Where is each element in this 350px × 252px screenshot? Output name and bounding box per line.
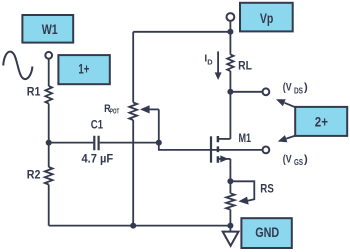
- wire terminal to R1: [48, 59, 50, 86]
- MOSFET M1 channel segments: [217, 136, 220, 163]
- RS wiper junction dot: [227, 178, 233, 184]
- svg-text:): ): [304, 153, 308, 165]
- VGS terminal circle: [263, 147, 270, 154]
- MOSFET M1 gate bar: [210, 136, 212, 162]
- RS wiper wire: [230, 181, 254, 201]
- sine wave symbol: [3, 52, 32, 79]
- W1 signal source box: [22, 15, 73, 43]
- M1 drain wire: [219, 138, 231, 140]
- svg-text:4.7 µF: 4.7 µF: [82, 152, 114, 166]
- potentiometer RPOT: [129, 103, 137, 121]
- RPOT wiper arrow: [149, 108, 159, 110]
- bottom ground rail wire: [49, 225, 231, 227]
- capacitor C1: [94, 136, 98, 151]
- ID current arrow: [217, 51, 219, 73]
- svg-text:POT: POT: [110, 106, 120, 115]
- svg-text:R2: R2: [27, 168, 41, 182]
- ground symbol: [223, 232, 239, 246]
- 2+ scope channel box: [295, 107, 347, 136]
- svg-text:): ): [304, 82, 308, 94]
- svg-text:(V: (V: [283, 153, 292, 165]
- resistor RL: [227, 55, 233, 72]
- svg-text:D: D: [207, 57, 213, 66]
- wire RS to ground: [229, 210, 231, 232]
- arrow 2+ to VDS: [285, 103, 296, 108]
- VDS terminal circle: [263, 88, 270, 95]
- wiper wire down to node B: [158, 109, 160, 142]
- node A junction dot: [46, 140, 52, 146]
- svg-text:1+: 1+: [78, 62, 89, 77]
- svg-text:RL: RL: [238, 59, 252, 73]
- VDS tap wire: [230, 91, 262, 93]
- wire C1 to node B: [100, 142, 159, 144]
- svg-text:C1: C1: [91, 117, 103, 131]
- top supply rail wire: [133, 31, 230, 33]
- svg-text:Vp: Vp: [260, 11, 274, 26]
- middle rail wire (Vp to RPOT): [132, 32, 134, 103]
- resistor RS: [226, 193, 234, 209]
- svg-text:R1: R1: [27, 85, 41, 99]
- svg-text:W1: W1: [42, 22, 58, 37]
- M1 source arrow: [220, 155, 228, 162]
- right rail wire Vp to drain: [229, 21, 231, 55]
- resistor R2: [45, 167, 53, 185]
- top rail junction dot: [227, 29, 233, 35]
- node B junction dot (wiper to gate): [156, 140, 162, 146]
- svg-text:GS: GS: [294, 158, 303, 167]
- terminal node W1/1+ (open circle): [45, 52, 52, 59]
- svg-text:M1: M1: [239, 131, 252, 145]
- wire source to RS: [229, 159, 231, 193]
- wire node A to C1: [49, 142, 94, 144]
- resistor R1: [45, 86, 52, 104]
- VDS branch junction dot: [227, 89, 233, 95]
- svg-text:DS: DS: [294, 86, 303, 95]
- Vp box: [240, 3, 293, 32]
- RS wiper arrow: [238, 197, 248, 205]
- bottom rail junction dot at RPOT leg: [130, 223, 136, 229]
- bottom rail junction dot at ground: [227, 223, 233, 229]
- wire RL to drain: [229, 71, 231, 139]
- wire R1 to node A: [48, 104, 50, 168]
- arrow 2+ to VGS: [286, 136, 296, 139]
- M1 source wire: [219, 158, 231, 160]
- svg-text:2+: 2+: [315, 114, 328, 129]
- wire R2 to bottom rail: [48, 185, 50, 226]
- GND box: [241, 218, 291, 248]
- Vp terminal circle: [227, 13, 235, 21]
- svg-text:(V: (V: [283, 82, 292, 94]
- gate wire node B to M1 / VGS tap: [159, 143, 263, 150]
- svg-text:RS: RS: [260, 182, 274, 196]
- 1+ scope channel box: [58, 55, 109, 84]
- wire RPOT bottom to bottom rail: [132, 120, 134, 226]
- svg-text:GND: GND: [255, 225, 279, 240]
